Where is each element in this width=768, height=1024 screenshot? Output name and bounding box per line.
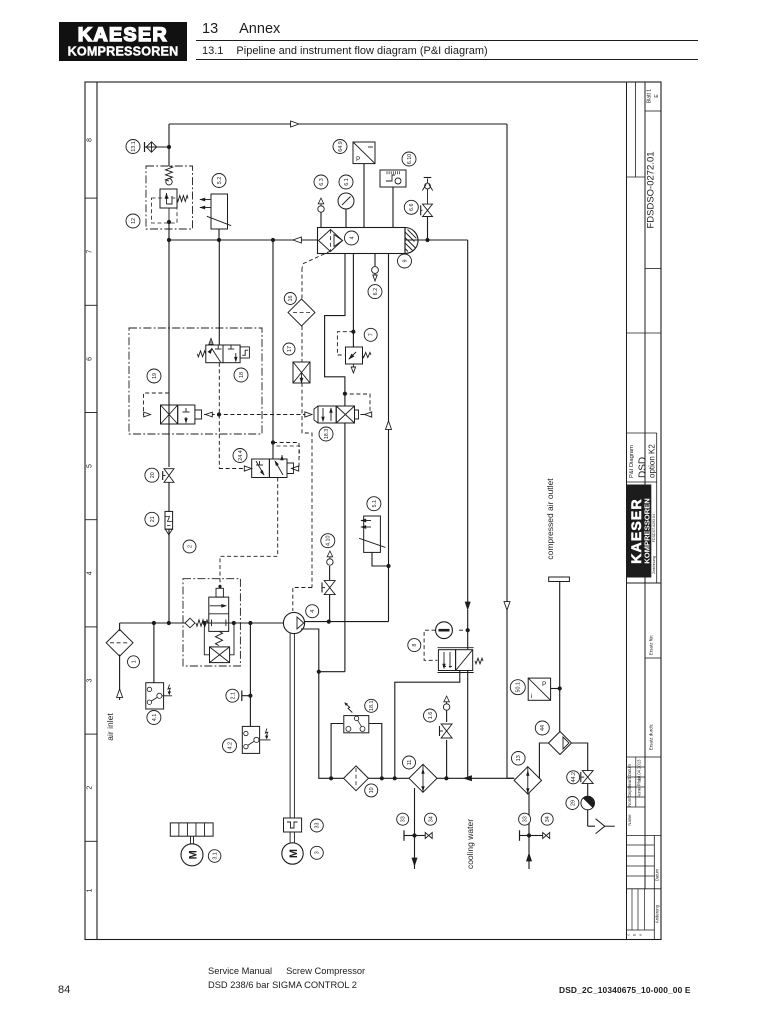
svg-text:FDSDSO-0272.01: FDSDSO-0272.01 bbox=[646, 151, 657, 228]
wire valve8 down to cooler line bbox=[467, 671, 469, 779]
title block revision table bbox=[631, 889, 633, 930]
pilot dashed 24.4 bottom to inlet valve bbox=[220, 478, 278, 586]
svg-text:Norm: Norm bbox=[627, 796, 632, 807]
svg-text:50.1: 50.1 bbox=[516, 682, 522, 693]
KAESER logo rotated in title block bbox=[627, 485, 652, 578]
enclosure box around valves 18/19 bbox=[129, 328, 262, 434]
3/2-way valve 19/18 bbox=[218, 240, 220, 345]
svg-text:Blatt 1: Blatt 1 bbox=[647, 89, 653, 103]
inlet valve 2 body bbox=[209, 597, 229, 631]
orifice 21 bbox=[165, 511, 173, 529]
svg-text:1: 1 bbox=[87, 888, 94, 892]
svg-text:18: 18 bbox=[239, 372, 245, 378]
wire x507 down to aftercooler bbox=[506, 124, 508, 778]
wire main suction line y623 bbox=[120, 622, 185, 624]
water labels 33/34 at aftercooler bbox=[519, 813, 531, 825]
svg-text:Änderung: Änderung bbox=[655, 904, 660, 923]
svg-text:Pfau: Pfau bbox=[637, 777, 642, 786]
svg-text:29: 29 bbox=[570, 800, 576, 806]
svg-text:18.1: 18.1 bbox=[369, 701, 375, 712]
transducer P/I 50.1 bbox=[528, 678, 550, 700]
svg-text:34: 34 bbox=[428, 816, 434, 822]
svg-text:2.1: 2.1 bbox=[230, 692, 236, 700]
svg-text:Name: Name bbox=[627, 814, 632, 826]
thermostatic valve 18.1 bbox=[344, 716, 369, 733]
svg-text:4: 4 bbox=[310, 610, 316, 613]
pressure switch 4.2 bbox=[242, 726, 259, 753]
wire discharge line bbox=[305, 621, 389, 623]
svg-text:Datum: Datum bbox=[627, 763, 632, 776]
svg-text:c: c bbox=[627, 934, 631, 936]
oil cooler 11 bbox=[409, 764, 437, 792]
wire separator drop c (vent 6.2) bbox=[374, 254, 376, 267]
wire branch to pressure switch 4.1 bbox=[153, 623, 155, 683]
pilot dashed oil injection line (16/17) bbox=[302, 251, 331, 268]
fan 3.1 bbox=[170, 823, 213, 836]
svg-text:Gepr.: Gepr. bbox=[627, 787, 632, 797]
inlet valve 2 pilot port bbox=[219, 587, 221, 588]
wire airend shaft double line bbox=[289, 633, 291, 818]
wire solenoid 5.1 tap bbox=[372, 552, 389, 566]
svg-text:13.1: 13.1 bbox=[131, 141, 137, 152]
footer bbox=[58, 984, 70, 996]
wire x273 down bbox=[272, 240, 274, 459]
nozzle 17 bbox=[293, 362, 310, 383]
pilot dashed x219 from valve 18/19 bbox=[218, 363, 220, 415]
svg-text:6.2: 6.2 bbox=[373, 288, 379, 296]
wire water T fittings bbox=[404, 835, 415, 837]
svg-text:option K2: option K2 bbox=[648, 444, 657, 478]
air filter 1 bbox=[106, 629, 133, 656]
airend 4 (compressor) bbox=[283, 612, 304, 633]
wire aftercooler to water separator bbox=[539, 743, 548, 778]
pressure gauge 6.1 bbox=[338, 193, 354, 209]
check valve 13.1 branch bbox=[145, 146, 170, 148]
svg-text:i: i bbox=[531, 693, 532, 700]
svg-text:34: 34 bbox=[545, 816, 551, 822]
svg-text:6.6: 6.6 bbox=[409, 204, 415, 212]
relief valve 7 bbox=[346, 347, 363, 364]
svg-text:16: 16 bbox=[288, 296, 294, 302]
pressure switch 6.10 bbox=[380, 170, 406, 187]
svg-text:10: 10 bbox=[369, 787, 375, 793]
svg-text:21: 21 bbox=[150, 516, 156, 522]
drive motor 3 bbox=[282, 843, 303, 864]
svg-text:Auner: Auner bbox=[637, 786, 642, 798]
pilot dashed relief 7 loop bbox=[337, 332, 353, 355]
blowdown silencer 4.10 with valve bbox=[327, 559, 333, 565]
svg-text:9: 9 bbox=[402, 260, 408, 263]
svg-text:44: 44 bbox=[540, 725, 546, 731]
svg-text:8: 8 bbox=[87, 138, 94, 142]
wire oil drain from airend bbox=[301, 629, 344, 778]
svg-text:3: 3 bbox=[315, 851, 321, 854]
svg-text:20: 20 bbox=[150, 472, 156, 478]
oil stop valve 8 bbox=[438, 647, 474, 649]
svg-text:Bearb.: Bearb. bbox=[627, 776, 632, 788]
wire air filter to suction bbox=[119, 655, 121, 700]
suction check valve with spring bbox=[185, 618, 195, 628]
svg-text:1: 1 bbox=[131, 660, 137, 663]
svg-text:air inlet: air inlet bbox=[105, 713, 115, 741]
wire separator drop d (main air from airend) bbox=[388, 254, 390, 622]
aftercooler 13 bbox=[514, 767, 541, 794]
pilot dashed box left of regulator 18.3 area bbox=[144, 393, 170, 415]
svg-text:Ersatz durch:: Ersatz durch: bbox=[649, 724, 654, 751]
wire oil line y778 bbox=[368, 777, 409, 779]
svg-text:7: 7 bbox=[87, 250, 94, 254]
svg-text:4: 4 bbox=[87, 571, 94, 575]
wire water separator drain bbox=[571, 743, 587, 771]
svg-text:33: 33 bbox=[315, 823, 321, 829]
pressure valve (X) in enclosure bbox=[161, 405, 178, 424]
svg-text:4.10: 4.10 bbox=[326, 535, 332, 546]
wire compressed air outlet riser bbox=[549, 577, 570, 582]
svg-text:64.9: 64.9 bbox=[338, 141, 344, 152]
drain valve 20 bbox=[164, 469, 174, 476]
heading 13.1 bbox=[202, 45, 488, 57]
wire top control line bbox=[169, 123, 507, 125]
shutoff valve 6.6 with relief bbox=[427, 217, 429, 241]
KAESER logo header bbox=[59, 22, 187, 61]
test point 2.1 label bbox=[226, 689, 239, 702]
svg-text:44.2: 44.2 bbox=[571, 772, 577, 783]
svg-text:33: 33 bbox=[401, 816, 407, 822]
level gauge at valve 8 bbox=[436, 622, 453, 639]
svg-text:compressed air outlet: compressed air outlet bbox=[545, 478, 555, 560]
svg-text:1.6: 1.6 bbox=[428, 712, 434, 720]
solenoid valve 24.4 bbox=[252, 459, 270, 478]
wire water inlet (cooling) at aftercooler bbox=[528, 793, 530, 869]
svg-text:e: e bbox=[639, 934, 643, 936]
svg-text:11: 11 bbox=[407, 760, 413, 766]
wire valve8 to oil line bbox=[395, 671, 460, 779]
wire water outlet at oil cooler bbox=[414, 788, 416, 869]
svg-text:18.04.2013: 18.04.2013 bbox=[637, 759, 642, 781]
solenoid valve 18.3 bbox=[314, 406, 318, 423]
wire 5.2 drop bbox=[218, 229, 220, 240]
svg-text:Ersatz für:: Ersatz für: bbox=[649, 635, 654, 656]
enclosure dashes at 24.4 valve bbox=[277, 446, 300, 457]
svg-text:Zeichnung: Zeichnung bbox=[652, 556, 656, 574]
oil filter 10 bbox=[344, 766, 369, 791]
drawing frame bbox=[85, 82, 661, 940]
vent 6.2 under separator bbox=[372, 267, 379, 274]
svg-text:cooling water: cooling water bbox=[465, 819, 475, 869]
svg-text:4: 4 bbox=[349, 237, 355, 240]
wire branch to pressure switch 4.2 with test point 2.1 bbox=[249, 623, 251, 726]
water separator 44 bbox=[549, 732, 572, 755]
svg-text:33: 33 bbox=[522, 816, 528, 822]
svg-text:24.4: 24.4 bbox=[238, 450, 244, 461]
svg-text:8: 8 bbox=[412, 644, 418, 647]
svg-text:Datum: Datum bbox=[655, 868, 660, 881]
svg-text:6.1: 6.1 bbox=[344, 178, 350, 186]
pilot dashed bus y414.5 bbox=[204, 414, 308, 416]
dirt trap 16 (dashed diamond) bbox=[288, 299, 315, 326]
fan motor M 3.1 bbox=[181, 844, 203, 866]
svg-text:17: 17 bbox=[287, 346, 293, 352]
wire left control riser x169 bbox=[168, 124, 170, 166]
svg-text:5.2: 5.2 bbox=[217, 177, 223, 185]
oil separator tank 5 bbox=[318, 228, 406, 254]
wire separator drop b (to relief 7) bbox=[352, 254, 354, 348]
vent valve 6.3 bbox=[318, 206, 324, 212]
svg-text:19: 19 bbox=[152, 373, 158, 379]
solenoid valve 5.2 bbox=[211, 194, 228, 229]
svg-text:FDSDST-0293.04: FDSDST-0293.04 bbox=[652, 514, 656, 542]
pilot dashed valve 8 gauge loop bbox=[459, 629, 468, 631]
svg-text:3.1: 3.1 bbox=[212, 852, 218, 860]
condensate drain 29 bbox=[581, 796, 595, 810]
pressure regulator 12 bbox=[166, 166, 173, 181]
inlet valve 2 bypass X box with side legs bbox=[204, 623, 209, 655]
pilot dashed from x273 dot to 24.4 right side bbox=[273, 443, 299, 469]
svg-text:E: E bbox=[654, 94, 660, 98]
svg-text:M: M bbox=[188, 850, 200, 859]
label circle 2 (inlet valve assembly) bbox=[183, 540, 196, 553]
svg-text:4.1: 4.1 bbox=[152, 714, 158, 722]
wire vent 1.6 drain to oil line bbox=[446, 710, 448, 722]
enclosure box around regulator 12 bbox=[146, 166, 193, 229]
svg-text:18.3: 18.3 bbox=[324, 429, 330, 440]
svg-text:6: 6 bbox=[87, 357, 94, 361]
svg-text:5.1: 5.1 bbox=[372, 500, 378, 508]
svg-text:3: 3 bbox=[87, 678, 94, 682]
svg-text:5: 5 bbox=[87, 464, 94, 468]
wire thermo bypass bbox=[331, 724, 343, 779]
svg-text:12: 12 bbox=[131, 218, 137, 224]
svg-text:7: 7 bbox=[369, 333, 375, 336]
wire control bus y240 bbox=[169, 239, 273, 241]
heading 13 Annex bbox=[202, 21, 280, 37]
svg-text:M: M bbox=[288, 849, 300, 858]
svg-text:2: 2 bbox=[87, 786, 94, 790]
vent 1.6 on oil line bbox=[443, 704, 449, 710]
svg-text:2: 2 bbox=[187, 545, 193, 548]
wire 4.10 blowdown branch bbox=[329, 595, 331, 622]
svg-text:P: P bbox=[356, 156, 360, 163]
water labels 33/34 at oil cooler bbox=[397, 813, 409, 825]
svg-text:P&I Diagram: P&I Diagram bbox=[629, 445, 635, 478]
svg-text:b: b bbox=[633, 934, 637, 936]
transducer P/I 64.9 bbox=[353, 142, 375, 164]
svg-text:KOMPRESSOREN: KOMPRESSOREN bbox=[643, 498, 652, 563]
coupling 33 bbox=[284, 818, 302, 832]
pilot dashed valve 18.3 right loop bbox=[346, 394, 371, 415]
svg-text:4.2: 4.2 bbox=[227, 742, 233, 750]
drain valve 44.2 bbox=[582, 771, 593, 778]
title block grid bbox=[626, 82, 628, 940]
pressure switch 4.1 bbox=[146, 683, 164, 709]
svg-text:P: P bbox=[542, 681, 546, 688]
svg-text:6.3: 6.3 bbox=[319, 178, 325, 186]
svg-text:13: 13 bbox=[516, 755, 522, 761]
solenoid valve 5.1 bbox=[364, 516, 381, 552]
svg-text:6.10: 6.10 bbox=[407, 154, 413, 165]
enclosure box around inlet valve 2 bbox=[183, 579, 240, 666]
wire separator drop a (to valve 18.3) bbox=[325, 254, 345, 407]
